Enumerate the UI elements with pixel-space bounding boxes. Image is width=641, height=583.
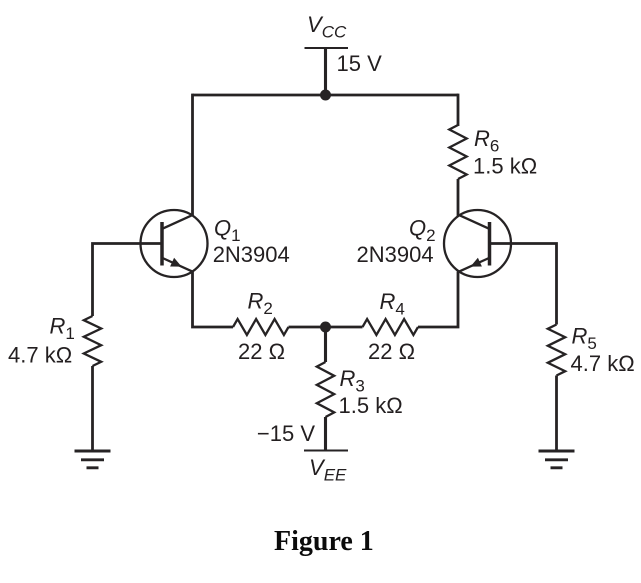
svg-text:2N3904: 2N3904 xyxy=(357,242,434,267)
wire R6 to Q2 collector xyxy=(457,179,460,216)
resistor R3 xyxy=(317,362,334,417)
resistor R6 xyxy=(449,125,466,179)
ground left xyxy=(75,451,111,468)
svg-text:−15 V: −15 V xyxy=(257,421,315,446)
wire node to R4 xyxy=(326,326,363,329)
wire R2 to center node xyxy=(289,326,326,329)
svg-text:1.5 kΩ: 1.5 kΩ xyxy=(339,393,403,418)
node dot at Vcc rail xyxy=(320,90,331,101)
svg-text:Figure 1: Figure 1 xyxy=(274,526,374,557)
Vee supply bar xyxy=(304,450,348,452)
node dot emitter junction xyxy=(320,322,331,333)
wire Q1 collector xyxy=(191,94,194,216)
svg-text:2N3904: 2N3904 xyxy=(213,242,290,267)
wire node to R3 xyxy=(324,327,327,362)
svg-text:1.5 kΩ: 1.5 kΩ xyxy=(473,154,537,179)
wire R4 to Q2 emitter xyxy=(418,272,458,328)
svg-text:22 Ω: 22 Ω xyxy=(368,339,415,364)
resistor R4 xyxy=(363,319,419,335)
wire R5 to ground xyxy=(555,376,558,452)
wire Vcc stem xyxy=(324,48,327,95)
svg-text:15 V: 15 V xyxy=(337,51,383,76)
Vcc supply bar xyxy=(305,47,349,49)
wire rail to R6 xyxy=(457,94,460,126)
ground right xyxy=(539,451,575,468)
wire Q1 emitter xyxy=(193,272,234,328)
resistor R1 xyxy=(84,316,101,366)
wire R3 to Vee xyxy=(324,417,327,451)
wire Q1 base to R1 xyxy=(93,244,163,317)
wire top supply rail xyxy=(193,94,459,97)
resistor R2 xyxy=(233,319,289,335)
transistor Q1 xyxy=(141,210,208,277)
wire R1 to ground xyxy=(91,366,94,451)
resistor R5 xyxy=(548,325,565,376)
svg-text:4.7 kΩ: 4.7 kΩ xyxy=(8,343,72,368)
transistor Q2 xyxy=(444,210,511,277)
svg-text:22 Ω: 22 Ω xyxy=(238,339,285,364)
wire Q2 base to R5 xyxy=(490,244,557,325)
svg-text:4.7 kΩ: 4.7 kΩ xyxy=(571,351,635,376)
